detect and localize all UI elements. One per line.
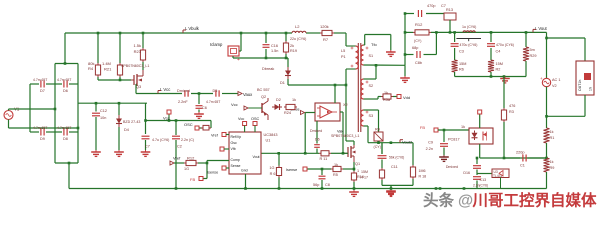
svg-text:OSC: OSC: [251, 117, 259, 121]
svg-text:1G: 1G: [184, 167, 189, 171]
wire Q1 source: [353, 162, 355, 169]
svg-text:Dmixed: Dmixed: [446, 165, 458, 169]
svg-text:R5a: R5a: [383, 98, 391, 102]
svg-text:68p: 68p: [412, 46, 418, 50]
capacitor C3: [451, 32, 478, 60]
resistor R11: [319, 151, 331, 161]
ground C9: [443, 155, 445, 157]
svg-text:15M: 15M: [496, 62, 503, 66]
wire R18 bottom: [412, 179, 414, 185]
ground S1: [390, 50, 392, 52]
resistor R3: [501, 104, 515, 122]
net square Vfb-ic: [220, 147, 229, 151]
wire bridge right vertical: [77, 64, 79, 164]
svg-text:1M6: 1M6: [419, 169, 426, 173]
junction: [265, 57, 268, 60]
svg-text:UC3843: UC3843: [264, 133, 278, 137]
mosfet Q1 SPB07N60C3: [331, 134, 360, 166]
resistor R29: [523, 32, 536, 61]
wire bridge left vertical: [54, 64, 56, 164]
junction: [525, 31, 528, 34]
svg-text:OUT1h: OUT1h: [578, 80, 582, 91]
svg-text:Isense: Isense: [207, 171, 218, 175]
svg-text:R 6: R 6: [270, 172, 276, 176]
junction: [443, 129, 446, 132]
wire S3 bottom: [364, 126, 369, 143]
ic U1 UC3843: [229, 132, 277, 174]
svg-text:1k: 1k: [550, 130, 554, 134]
svg-text:Vdd: Vdd: [403, 95, 410, 100]
net square Vcc: [168, 114, 170, 121]
wire Vout2 row: [368, 142, 413, 144]
probe mark L3: [456, 38, 481, 40]
svg-text:D6: D6: [315, 138, 320, 142]
svg-text:1h: 1h: [589, 87, 593, 91]
wire R12 to comp: [198, 161, 229, 164]
wire R4b bottom: [378, 141, 380, 143]
svg-text:D9: D9: [40, 137, 45, 141]
svg-text:5m: 5m: [530, 48, 535, 52]
junction: [545, 37, 548, 40]
resistor R13: [444, 8, 456, 20]
resistor R1: [544, 128, 555, 143]
svg-text:C2: C2: [177, 145, 182, 149]
net square OSC: [184, 122, 199, 130]
junction: [435, 31, 438, 34]
svg-text:D8: D8: [63, 137, 68, 141]
wire C7 bottom: [145, 140, 147, 150]
svg-text:R2: R2: [496, 68, 501, 72]
junction: [244, 187, 247, 190]
wire output gnd row: [455, 76, 526, 78]
junction: [321, 187, 324, 190]
capacitor C4: [487, 32, 514, 60]
resistor R6: [452, 60, 467, 72]
junction: [490, 75, 493, 78]
resistor R21: [117, 63, 122, 77]
wire to TL431: [477, 173, 492, 175]
wire C8b up: [435, 32, 437, 54]
resistor R23: [140, 48, 145, 62]
current probe Iclamp: [210, 42, 240, 63]
svg-text:476: 476: [509, 104, 515, 108]
junction: [435, 187, 438, 190]
junction: [77, 127, 80, 130]
capacitor D6: [55, 78, 78, 93]
svg-text:C8: C8: [325, 183, 330, 187]
junction: [404, 31, 407, 34]
capacitor C2: [172, 121, 194, 149]
net square FB: [190, 177, 203, 183]
junction: [377, 141, 380, 144]
ground output: [504, 77, 506, 79]
junction: [285, 32, 288, 35]
wire S1 top: [364, 35, 391, 51]
wire R17 bottom: [381, 180, 383, 185]
junction: [334, 84, 337, 87]
wire IC gnd: [245, 174, 247, 189]
wire bridge center vertical: [29, 84, 31, 132]
resistor R12b: [184, 160, 198, 171]
wire sense to node: [307, 168, 331, 170]
junction: [97, 32, 100, 35]
wire R9 bottom: [546, 172, 548, 189]
transformer primary P1: [341, 46, 358, 69]
junction: [304, 152, 307, 155]
svg-text:R23: R23: [134, 49, 142, 54]
wire Vref to R12: [174, 162, 184, 164]
svg-text:2.2n(CY6): 2.2n(CY6): [473, 184, 488, 188]
wire R18 col: [412, 143, 414, 165]
svg-text:@: @: [458, 193, 473, 210]
svg-text:Q2: Q2: [261, 95, 266, 99]
resistor R5a: [381, 91, 393, 102]
wire C7 column: [145, 103, 147, 134]
junction: [342, 152, 345, 155]
svg-text:220p: 220p: [516, 151, 524, 155]
svg-text:1k: 1k: [292, 98, 296, 102]
wire to Vdd node: [393, 96, 397, 98]
svg-text:Vak: Vak: [337, 130, 343, 134]
svg-text:1k: 1k: [334, 163, 338, 167]
capacitor C14: [418, 4, 445, 17]
junction: [390, 187, 393, 190]
wire Vcc rail: [136, 93, 238, 95]
svg-text:4.7m 65T: 4.7m 65T: [206, 100, 220, 104]
wire S2 top: [364, 65, 377, 79]
net arrow Vref: [170, 161, 174, 165]
svg-text:Dmixed: Dmixed: [177, 89, 190, 93]
svg-text:L Vbulk: L Vbulk: [185, 26, 200, 31]
resistor R5: [331, 163, 343, 177]
svg-text:Vcc: Vcc: [238, 117, 244, 121]
svg-text:FB: FB: [190, 177, 195, 182]
svg-text:头条: 头条: [423, 191, 455, 210]
svg-text:2.2n (C): 2.2n (C): [181, 138, 194, 142]
wire V1 top: [9, 109, 56, 111]
junction: [64, 62, 67, 65]
svg-text:Isense: Isense: [286, 168, 297, 172]
svg-text:L5: L5: [341, 49, 345, 53]
wire C3 col bottom: [454, 72, 456, 77]
svg-text:Vout2: Vout2: [402, 140, 413, 145]
wire Vout drop: [546, 32, 548, 78]
capacitor C1: [516, 151, 530, 168]
svg-text:川哥工控界自媒体: 川哥工控界自媒体: [472, 191, 598, 210]
resistor R26: [269, 153, 281, 188]
svg-text:15M: 15M: [361, 170, 368, 174]
ground bottom rail: [390, 190, 392, 192]
svg-text:56k (CY6): 56k (CY6): [389, 156, 404, 160]
svg-text:SPB07N60C3_L1: SPB07N60C3_L1: [331, 134, 359, 138]
svg-text:Vaux: Vaux: [243, 92, 253, 97]
mosfet Q3 SPB07N60C3: [121, 64, 149, 89]
svg-text:1.4M: 1.4M: [102, 61, 111, 66]
junction: [375, 64, 378, 67]
wire R29 bottom: [525, 61, 527, 77]
junction: [545, 115, 548, 118]
svg-text:D6: D6: [63, 89, 68, 93]
wire FB to opto: [438, 129, 469, 131]
svg-text:R6: R6: [459, 68, 464, 72]
shunt regulator U3 TL431: [492, 169, 509, 189]
net square FB2: [420, 125, 438, 132]
watermark: [423, 191, 597, 210]
wire R23 top: [142, 33, 144, 48]
svg-text:R4: R4: [88, 66, 94, 71]
svg-text:C16: C16: [271, 44, 278, 48]
wire S2 bottom: [364, 97, 382, 100]
wire OUT box bottom: [547, 95, 586, 116]
transformer secondary S1: [361, 45, 373, 65]
svg-text:R29: R29: [530, 54, 537, 58]
capacitor C12: [92, 103, 107, 150]
diode D16: [446, 158, 481, 175]
wire S3 top: [364, 110, 379, 132]
wire Iclamp stub: [233, 33, 288, 58]
svg-text:56p: 56p: [313, 183, 319, 187]
svg-text:+: +: [540, 76, 543, 81]
svg-text:(CY): (CY): [414, 39, 421, 43]
wire C4 col bottom: [490, 72, 492, 77]
wire FB drop: [203, 163, 207, 179]
junction: [175, 119, 178, 122]
driver X2: [315, 103, 348, 121]
svg-text:C1: C1: [520, 164, 525, 168]
capacitor C6 series: [206, 89, 220, 104]
resistor R4b: [374, 128, 384, 150]
wire X2 input: [305, 113, 315, 154]
junction: [68, 162, 71, 165]
svg-text:S2: S2: [369, 84, 374, 88]
wire X2 out: [340, 112, 343, 153]
svg-text:C6: C6: [202, 106, 207, 110]
svg-text:R4: R4: [375, 128, 380, 132]
net arrow driver-in: [301, 111, 305, 115]
svg-text:Vcc: Vcc: [231, 102, 238, 107]
svg-text:Tfo: Tfo: [371, 42, 378, 47]
wire divider gnd stub: [390, 185, 392, 189]
wire S1 bottom gnd stub: [404, 65, 406, 76]
junction: [206, 162, 209, 165]
junction: [463, 187, 466, 190]
net square Vcc-ic: [238, 117, 247, 132]
svg-text:2k: 2k: [290, 44, 294, 48]
junction: [476, 157, 479, 160]
junction: [503, 75, 506, 78]
junction: [278, 187, 281, 190]
wire R4 bottom: [98, 77, 131, 80]
svg-text:L Vout: L Vout: [535, 26, 548, 31]
wire C2 to bottom rail: [175, 140, 177, 189]
wire X2 vcc stub: [334, 85, 336, 103]
net square Vref-ic: [211, 133, 229, 138]
resistor R24: [284, 104, 297, 115]
svg-text:R13: R13: [446, 8, 453, 12]
capacitor C9: [426, 130, 448, 155]
wire V1 bottom: [9, 120, 79, 129]
junction: [119, 32, 122, 35]
optocoupler X3 PC817: [448, 128, 493, 144]
svg-text:R3: R3: [509, 110, 514, 114]
wire R21 top: [119, 33, 121, 63]
ground C12: [95, 150, 97, 152]
svg-text:R19: R19: [290, 49, 297, 53]
capacitor C7: [142, 136, 170, 142]
wire sec vertical: [404, 14, 406, 66]
svg-text:X2: X2: [343, 103, 348, 107]
net arrow Vaux: [238, 92, 253, 98]
junction: [404, 53, 407, 56]
svg-text:R21: R21: [104, 67, 112, 72]
svg-text:Comp: Comp: [231, 158, 240, 162]
diode D5 series: [177, 89, 190, 104]
svg-text:R 18: R 18: [419, 175, 427, 179]
transistor Q2: [248, 98, 268, 120]
svg-text:C4: C4: [496, 50, 501, 54]
svg-text:4.7m 65T: 4.7m 65T: [33, 126, 47, 130]
wire comp row: [504, 157, 547, 159]
capacitor C16: [263, 33, 279, 58]
ac source V1: [4, 107, 20, 120]
junction: [345, 84, 348, 87]
svg-text:1k: 1k: [461, 125, 465, 129]
svg-text:C7: C7: [145, 145, 150, 149]
ground C7: [145, 150, 147, 152]
capacitor C11: [378, 143, 405, 169]
junction: [175, 187, 178, 190]
ground D4: [118, 150, 120, 152]
svg-text:Vref: Vref: [211, 134, 219, 138]
svg-text:C13: C13: [480, 178, 487, 182]
svg-text:15M: 15M: [459, 62, 466, 66]
resistor R19: [283, 33, 297, 58]
wire to OUT box: [547, 38, 586, 61]
svg-text:R12: R12: [187, 156, 195, 161]
svg-text:BZD 27-43: BZD 27-43: [123, 120, 140, 124]
svg-text:OSC: OSC: [184, 122, 193, 127]
wire D1 to drain: [288, 79, 346, 85]
wire R3 top: [503, 77, 505, 109]
transformer secondary S3: [361, 110, 373, 126]
resistor R12: [413, 22, 431, 43]
resistor R8: [201, 125, 211, 130]
wire opto top stub: [479, 114, 481, 128]
svg-text:1k: 1k: [550, 160, 554, 164]
svg-text:AC 1: AC 1: [552, 78, 560, 82]
wire S1 bottom: [364, 64, 406, 66]
svg-text:D5: D5: [213, 89, 218, 93]
svg-text:Vcc: Vcc: [163, 116, 170, 121]
svg-text:10n: 10n: [100, 116, 106, 120]
wire C1 to R9 col: [530, 157, 547, 159]
svg-text:D7: D7: [40, 89, 45, 93]
svg-text:C9: C9: [428, 141, 433, 145]
svg-text:4.7m 65T: 4.7m 65T: [57, 78, 71, 82]
wire divider gnd row: [382, 184, 413, 186]
svg-text:1: 1: [357, 169, 359, 173]
svg-text:C3: C3: [459, 50, 464, 54]
junction: [503, 157, 506, 160]
svg-text:R5: R5: [333, 173, 338, 177]
inductor L3: [462, 25, 476, 32]
capacitor D9: [30, 126, 55, 141]
net square OSC-ic: [251, 117, 259, 132]
svg-text:470u (CY6): 470u (CY6): [460, 43, 478, 47]
svg-text:D4: D4: [124, 128, 129, 132]
inductor L2: [290, 24, 306, 41]
svg-text:PC817: PC817: [448, 138, 460, 142]
ground C6b: [198, 112, 200, 114]
svg-text:D2: D2: [276, 98, 281, 102]
transformer core: [357, 43, 359, 132]
svg-text:470p: 470p: [427, 4, 435, 8]
wire sense row: [343, 168, 354, 170]
wire osc stub: [199, 121, 211, 129]
wire R23 bottom: [142, 62, 144, 70]
svg-text:L Vcc: L Vcc: [160, 87, 170, 92]
svg-text:4.7m 65T: 4.7m 65T: [33, 78, 47, 82]
svg-text:C8b: C8b: [415, 61, 422, 65]
svg-text:R24: R24: [284, 111, 291, 115]
svg-text:SPB07N60C3_L1: SPB07N60C3_L1: [121, 64, 149, 68]
junction: [353, 187, 356, 190]
svg-text:Sense: Sense: [231, 164, 241, 168]
wire snubber top: [405, 13, 444, 15]
wire C11 col: [381, 143, 383, 154]
transformer secondary S2: [361, 79, 373, 99]
capacitor C13: [473, 172, 488, 189]
junction: [198, 92, 201, 95]
junction: [118, 102, 121, 105]
svg-text:1G: 1G: [269, 166, 274, 170]
net square Vdd: [397, 95, 410, 101]
svg-text:D16: D16: [463, 171, 470, 175]
svg-text:470u (CY6): 470u (CY6): [496, 43, 514, 47]
svg-text:4.7m 65T: 4.7m 65T: [57, 126, 71, 130]
junction: [449, 31, 452, 34]
resistor R4: [95, 63, 100, 77]
svg-text:Gnd: Gnd: [241, 169, 248, 173]
wire divider to rail: [390, 185, 392, 188]
wire R1-R9: [546, 143, 548, 158]
svg-text:S3: S3: [369, 114, 374, 118]
junction: [490, 31, 493, 34]
svg-text:2.2n: 2.2n: [426, 147, 433, 151]
svg-text:4.7u (CY6): 4.7u (CY6): [152, 138, 169, 142]
junction: [142, 32, 145, 35]
svg-text:Vout: Vout: [252, 155, 259, 159]
wire V2 bottom: [546, 87, 548, 128]
wire R4 top: [97, 33, 99, 63]
resistor R7: [320, 24, 334, 42]
wire gate: [331, 152, 348, 154]
wire output rail: [405, 31, 547, 33]
junction: [277, 152, 280, 155]
capacitor D8: [55, 126, 78, 141]
svg-text:C12: C12: [100, 109, 107, 113]
svg-text:BC 557: BC 557: [257, 88, 270, 92]
svg-text:1u (CY6): 1u (CY6): [462, 25, 476, 29]
junction: [545, 157, 548, 160]
svg-text:R7: R7: [323, 37, 329, 42]
phase marks: [351, 47, 354, 50]
zener D4: [116, 103, 140, 150]
wire to bottom rail: [68, 163, 70, 189]
svg-text:V2: V2: [552, 84, 557, 88]
resistor R16: [351, 169, 364, 189]
net square opto-top: [478, 110, 482, 114]
